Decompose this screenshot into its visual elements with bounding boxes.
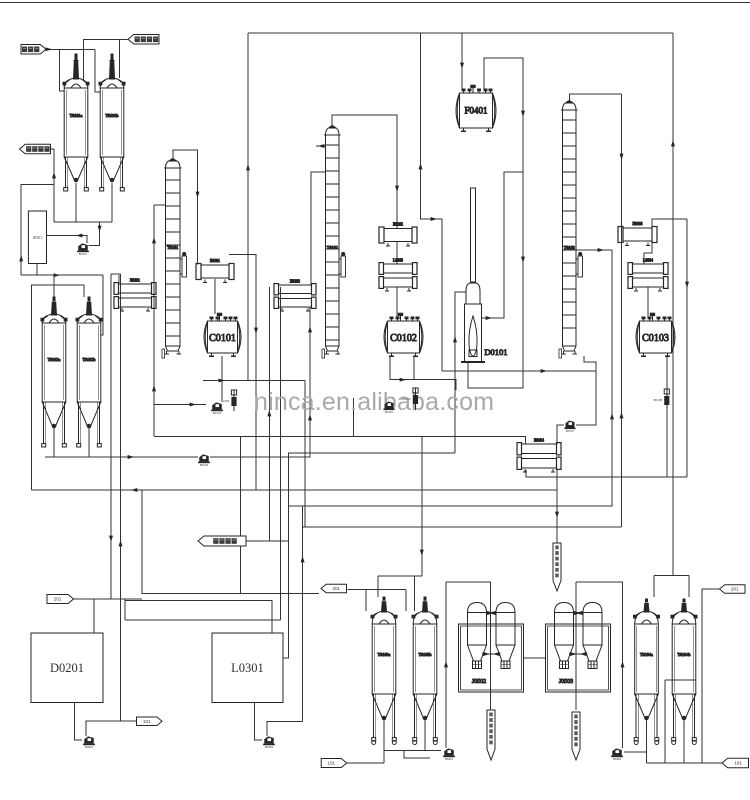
wire T0103 sidedraw (576, 249, 612, 251)
wire P3 top bracket (421, 437, 423, 576)
wire P3 second (404, 751, 430, 758)
wire T0101a bottoms (75, 183, 77, 222)
wire bridge B0401 (446, 582, 491, 710)
svg-text:T0102b: T0102b (82, 357, 95, 362)
wire E0104 to pennant (556, 470, 558, 543)
svg-text:201: 201 (333, 586, 341, 591)
wire drop x120 (120, 274, 122, 721)
wire E0201 top tie (118, 275, 120, 283)
flag 201 mid (321, 584, 347, 593)
column T0102 (322, 126, 346, 358)
svg-text:B0104: B0104 (221, 399, 230, 403)
vessel T0103b (412, 597, 438, 745)
wire feed drop b (95, 49, 101, 92)
wire J0503 center line (575, 582, 577, 710)
svg-text:E0201: E0201 (130, 278, 140, 282)
wire B0101 discharge (47, 236, 87, 244)
valve B0104 (221, 390, 237, 411)
wire y371 transfer (442, 370, 596, 372)
wire drop to T0102a (53, 275, 55, 297)
exchanger E0101 (196, 259, 234, 283)
wire P3 bottoms a (383, 719, 385, 763)
wire T0102 reflux arrow (316, 145, 326, 147)
flag 201 right (720, 585, 746, 594)
wire P3 bottoms b (424, 719, 426, 751)
flag slag (20, 144, 51, 154)
wire B0107 to E0104 (557, 425, 564, 444)
wire silo frame (32, 285, 84, 490)
vessel T0103a (371, 597, 397, 745)
wire riser x280 (280, 287, 282, 620)
wire L0303 to C0102 (396, 287, 398, 318)
wire drop x111 (110, 274, 112, 599)
svg-text:201: 201 (731, 587, 739, 592)
exchanger E0104 (517, 438, 561, 472)
wire B0105 riser (353, 398, 355, 437)
svg-text:C0103: C0103 (642, 333, 669, 344)
wire long y490 (32, 489, 557, 491)
svg-text:T0101a: T0101a (70, 113, 83, 118)
wire C0101 bottoms y380 (203, 380, 305, 382)
separator D0101 (461, 188, 508, 362)
wire drop x621 (621, 94, 623, 527)
wire T0103 bottoms (584, 356, 596, 371)
wire drop to B0107 (576, 371, 596, 425)
svg-text:101: 101 (143, 719, 151, 724)
flag 101 mid (321, 759, 347, 768)
wire bottoms y457 (45, 456, 198, 458)
drum C0101 (204, 313, 241, 356)
flag hydrogenation (128, 35, 159, 45)
vessel T0101a (63, 54, 89, 191)
vessel T0101b (99, 54, 125, 191)
box J0501 (28, 211, 46, 264)
svg-text:L0301: L0301 (231, 661, 264, 675)
wire P3 header (384, 750, 441, 752)
pump B0107 (564, 421, 575, 434)
wire drop x305 (304, 381, 306, 528)
svg-text:201: 201 (54, 597, 62, 602)
wire flag101b line (347, 762, 384, 764)
exchanger E0201 (114, 278, 156, 311)
wire header to left riser (53, 149, 55, 222)
wire B0102 discharge (210, 307, 310, 457)
wire D0101 left line (455, 292, 466, 453)
wire header drop x673 (672, 33, 674, 574)
wire drop x240 (239, 437, 241, 594)
unit J0502 (459, 603, 524, 693)
svg-text:B0105: B0105 (385, 410, 394, 414)
svg-text:L0303: L0303 (393, 258, 403, 262)
svg-text:L0304: L0304 (643, 258, 653, 262)
drum F0401 (456, 85, 496, 131)
wire B0101 suction (89, 222, 100, 246)
wire B0103 inlet (154, 404, 206, 406)
wire L0301 drain (255, 703, 262, 741)
wire flag201c line (702, 589, 720, 763)
wire main header y33 (248, 32, 673, 34)
wire vent b (118, 39, 120, 78)
valve B0106 (402, 388, 418, 410)
box L0301 (212, 633, 283, 703)
svg-text:B0102: B0102 (200, 463, 209, 467)
wire slag flag line (51, 148, 54, 150)
svg-text:E0103: E0103 (633, 222, 643, 226)
svg-text:T0104a: T0104a (640, 652, 653, 657)
wire C0101 drain (221, 356, 223, 400)
wire riser x256 (229, 255, 256, 491)
wire C0103 drain (666, 355, 668, 477)
wire P4 feed bracket (654, 575, 689, 577)
pennant J0503 drain (572, 712, 580, 760)
exchanger L0304 (628, 258, 668, 291)
wire T0101b bottoms (111, 183, 113, 222)
flag 201 left (47, 595, 74, 604)
svg-text:T0103a: T0103a (378, 652, 391, 657)
pennant E0104 drain (553, 543, 561, 591)
vessel T0102a (41, 297, 67, 447)
wire y763 (647, 762, 723, 764)
box D0201 (31, 633, 103, 703)
wire riser x248 (247, 33, 249, 381)
pump B0201 (83, 736, 95, 749)
svg-text:B0101: B0101 (79, 252, 88, 256)
wire T0102 overhead (332, 115, 397, 228)
pump B0402 (611, 748, 623, 761)
svg-text:T0101b: T0101b (105, 113, 118, 118)
svg-text:J0503: J0503 (559, 679, 573, 685)
svg-text:F0401: F0401 (465, 106, 488, 116)
wire E0101 to C0101 (214, 279, 216, 314)
wire header y275 (21, 274, 103, 276)
wire E0102 to L0303 (396, 242, 398, 264)
svg-text:B0106: B0106 (402, 397, 411, 401)
pennant J0502 drain (487, 710, 495, 760)
wire F0401 feed (461, 33, 463, 91)
wire silo P3 feed (348, 589, 406, 591)
svg-text:B0103: B0103 (213, 411, 222, 415)
flag raw-oil (21, 45, 46, 55)
wire J0501 bottom drop (36, 263, 38, 275)
wire bridge B0402 (576, 582, 623, 748)
wire L0304 to C0103 (647, 287, 649, 318)
svg-text:T0101: T0101 (167, 245, 178, 250)
svg-text:B0107: B0107 (566, 429, 575, 433)
svg-text:J0502: J0502 (472, 679, 486, 685)
pump B0102 (198, 454, 210, 467)
svg-text:E0202: E0202 (290, 279, 300, 283)
wire drop to D0201 (93, 599, 95, 633)
svg-text:T0104b: T0104b (677, 652, 690, 657)
svg-text:D0101: D0101 (484, 347, 507, 357)
wire flag201a line (74, 598, 143, 600)
exchanger E0103 (618, 222, 657, 246)
svg-text:B0302: B0302 (265, 745, 274, 749)
svg-text:T0102a: T0102a (48, 357, 61, 362)
wire P2 bottoms a (53, 427, 55, 457)
wire feed drop a (60, 49, 65, 91)
wire F0401 overhead loop (468, 58, 523, 388)
exchanger L0303 (379, 258, 417, 291)
wire B0302 discharge (267, 722, 303, 737)
wire D0101 to riser (482, 172, 523, 318)
vessel T0104b (671, 599, 697, 745)
wire riser x665 (664, 680, 666, 763)
wire riser B0401 (445, 582, 447, 748)
wire y620 (125, 619, 281, 621)
wire bottoms header y222 (54, 221, 112, 223)
wire T0101col overhead (173, 150, 198, 265)
wire flag201b line (142, 490, 319, 594)
wire E0104 return (526, 470, 687, 477)
wire P2 bottoms b (88, 427, 90, 457)
wire hydrogenation return (84, 39, 128, 80)
wire y379 (390, 356, 456, 390)
svg-text:101: 101 (734, 761, 742, 766)
wire top border (0, 2, 750, 4)
flag 101 left (137, 717, 163, 726)
flag sewage (198, 536, 246, 546)
wire bracket x125 (124, 599, 126, 620)
pump B0103 (211, 402, 223, 415)
svg-text:E0102: E0102 (393, 223, 403, 227)
wire riser x269 (268, 287, 270, 541)
svg-text:101: 101 (327, 761, 335, 766)
drum C0102 (384, 313, 423, 356)
valve FV01 (654, 389, 670, 409)
wire riser x687 (686, 219, 688, 477)
pump B0401 (443, 748, 455, 761)
svg-text:T0102: T0102 (327, 245, 338, 250)
wire P4 bottoms b (683, 719, 685, 763)
wire riser x420 (421, 33, 443, 371)
pump B0302 (263, 736, 275, 749)
wire y436 long (154, 437, 526, 445)
svg-text:T0103b: T0103b (418, 652, 431, 657)
wire D0201 drain (75, 703, 82, 741)
svg-text:B0402: B0402 (613, 757, 622, 761)
wire B0201 discharge (86, 721, 137, 736)
svg-text:E0101: E0101 (210, 259, 220, 263)
wire drop to T0102b (101, 275, 103, 335)
column T0103 (559, 101, 583, 358)
wire E0103 to L0304 (644, 241, 652, 264)
svg-text:ninca.en.alibaba.com: ninca.en.alibaba.com (254, 388, 494, 416)
wire sewage flag line (246, 540, 289, 542)
wire riser x154 (154, 204, 166, 206)
wire J0502-J0503 tie (524, 657, 546, 659)
wire long y527 (303, 526, 622, 528)
wire E0103 inlet header (652, 219, 687, 229)
wire drop x288 to L0301 (283, 541, 289, 658)
flag 101 right (722, 758, 749, 768)
svg-text:B0201: B0201 (85, 745, 94, 749)
wire P4 bottoms a (646, 719, 648, 763)
svg-text:C0102: C0102 (390, 333, 417, 344)
svg-text:J0501: J0501 (33, 236, 42, 240)
svg-text:T0103: T0103 (564, 245, 575, 250)
wire E0202 to T0102 (311, 172, 326, 285)
wire y600 to L0301 (125, 601, 272, 634)
wire bracket x111 top (111, 273, 121, 275)
wire raw oil feed (46, 48, 95, 50)
drum C0103 (636, 313, 675, 356)
column T0101 (162, 159, 187, 358)
wire C0102 drain (413, 356, 415, 380)
unit J0503 (546, 603, 611, 693)
svg-text:E0104: E0104 (534, 438, 544, 442)
svg-text:B0401: B0401 (445, 757, 454, 761)
wire long y506 (289, 250, 612, 506)
vessel T0102b (76, 297, 102, 447)
vessel T0104a (634, 599, 660, 745)
exchanger E0102 (379, 223, 417, 247)
wire riser x288 (289, 453, 455, 541)
svg-text:D0201: D0201 (50, 661, 84, 675)
svg-text:C0101: C0101 (209, 333, 236, 344)
svg-text:B0108: B0108 (654, 398, 663, 402)
exchanger E0202 (274, 279, 316, 311)
wire drop x302 (302, 506, 304, 722)
wire B0402 inlet (624, 751, 647, 753)
wire T0103 overhead (570, 94, 622, 102)
pump B0105 (383, 402, 394, 415)
pump B0101 (77, 243, 89, 256)
wire jog y184 (21, 185, 54, 276)
